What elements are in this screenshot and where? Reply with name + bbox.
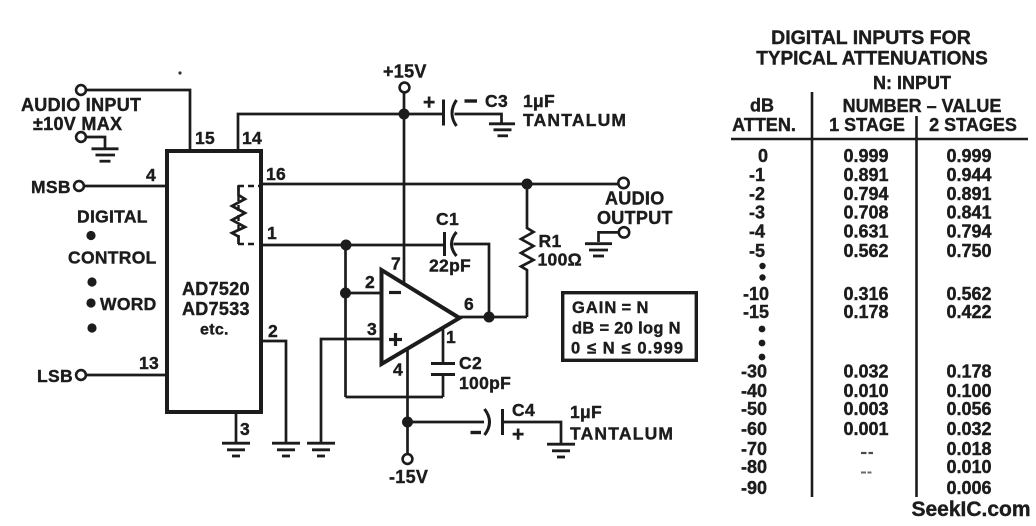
svg-text:TANTALUM: TANTALUM — [570, 424, 674, 444]
svg-text:7: 7 — [391, 254, 401, 274]
svg-text:-80: -80 — [741, 457, 767, 477]
svg-text:GAIN = N: GAIN = N — [572, 299, 649, 317]
terminal: MSB — [74, 181, 84, 191]
svg-text:TYPICAL ATTENUATIONS: TYPICAL ATTENUATIONS — [756, 49, 988, 70]
ground (C4) — [547, 444, 575, 457]
capacitor C3 — [444, 100, 457, 127]
svg-text:0.006: 0.006 — [946, 478, 991, 498]
wire: C1 to output node — [454, 244, 490, 312]
wire: pin 14 to +15V rail — [238, 114, 404, 150]
svg-text:C3: C3 — [485, 91, 508, 111]
wire: output return to ground — [599, 232, 619, 242]
svg-text:dB: dB — [750, 96, 774, 116]
svg-text:-30: -30 — [741, 362, 767, 382]
bullet 4 — [87, 323, 96, 332]
op-amp U1 — [382, 270, 460, 364]
svg-text:MSB: MSB — [31, 177, 71, 197]
scan speck — [178, 71, 181, 74]
svg-text:CONTROL: CONTROL — [68, 248, 157, 268]
ground (IC pin 2) — [272, 443, 300, 456]
svg-text:0.794: 0.794 — [946, 222, 991, 242]
wire: MSB to pin 4 — [85, 185, 165, 188]
wire: audio input to pin 15 — [87, 90, 190, 150]
bullet 3 — [86, 298, 95, 307]
svg-text:0.001: 0.001 — [843, 419, 888, 439]
wire: +15V node to C3 — [404, 113, 443, 116]
svg-text:AD7520: AD7520 — [182, 279, 250, 299]
svg-text:6: 6 — [464, 294, 474, 314]
svg-text:etc.: etc. — [200, 322, 229, 339]
svg-text:NUMBER – VALUE: NUMBER – VALUE — [843, 96, 1002, 116]
wire: pin 16 audio output line — [261, 183, 618, 186]
svg-text:TANTALUM: TANTALUM — [523, 110, 627, 130]
no-value dashes row -70 — [861, 452, 873, 454]
svg-text:0.003: 0.003 — [843, 399, 888, 419]
wire: IC pin 3 to ground — [235, 414, 238, 443]
wire: non-inverting input to ground — [321, 339, 380, 443]
junction: output node — [484, 312, 495, 323]
svg-text:0.999: 0.999 — [843, 146, 888, 166]
svg-text:AD7533: AD7533 — [182, 299, 250, 319]
svg-text:-4: -4 — [749, 222, 765, 242]
resistor: internal feedback of DAC — [232, 186, 245, 244]
svg-text:0.891: 0.891 — [946, 184, 991, 204]
wire: inverting net vertical — [344, 245, 347, 397]
svg-text:LSB: LSB — [37, 366, 73, 386]
svg-text:1: 1 — [446, 327, 456, 347]
svg-text:1μF: 1μF — [523, 91, 555, 111]
terminal: audio output — [618, 178, 628, 188]
label: − (C4 polarity) — [471, 431, 482, 434]
svg-text:0: 0 — [758, 146, 768, 166]
svg-text:-10: -10 — [743, 284, 769, 304]
svg-text:2: 2 — [365, 272, 375, 292]
svg-text:0.316: 0.316 — [843, 284, 888, 304]
svg-text:22pF: 22pF — [429, 256, 471, 276]
svg-text:-2: -2 — [749, 184, 765, 204]
svg-text:0.562: 0.562 — [946, 284, 991, 304]
capacitor C1 — [445, 232, 457, 256]
terminal: audio output return — [619, 227, 629, 237]
svg-text:DIGITAL: DIGITAL — [77, 207, 148, 227]
wire: LSB to pin 13 — [87, 374, 165, 377]
svg-text:+15V: +15V — [383, 62, 427, 82]
svg-text:+: + — [423, 91, 436, 114]
svg-text:ATTEN.: ATTEN. — [732, 115, 796, 135]
svg-text:-50: -50 — [741, 399, 767, 419]
svg-text:SeekIC.com: SeekIC.com — [911, 498, 1030, 521]
svg-text:3: 3 — [240, 419, 250, 439]
svg-text:-40: -40 — [741, 381, 767, 401]
svg-text:0.999: 0.999 — [946, 146, 991, 166]
svg-text:0.422: 0.422 — [946, 302, 991, 322]
ellipsis dots b — [759, 326, 766, 333]
svg-text:0 ≤ N ≤ 0.999: 0 ≤ N ≤ 0.999 — [571, 340, 684, 358]
svg-text:1 STAGE: 1 STAGE — [829, 115, 905, 135]
svg-text:+: + — [512, 423, 525, 446]
svg-text:0.032: 0.032 — [946, 419, 991, 439]
svg-text:-3: -3 — [749, 203, 765, 223]
wire: inverting input to op-amp — [346, 292, 382, 295]
svg-text:100Ω: 100Ω — [538, 250, 582, 270]
svg-text:0.178: 0.178 — [946, 362, 991, 382]
svg-text:0.100: 0.100 — [946, 381, 991, 401]
wire: op-amp pin 4 to -15V — [406, 350, 409, 454]
ground (C3) — [489, 124, 515, 136]
table rule: header underline — [731, 138, 1028, 141]
svg-text:0.944: 0.944 — [946, 165, 991, 185]
ellipsis dots a — [759, 263, 765, 269]
resistor R1 — [521, 184, 534, 317]
svg-text:0.010: 0.010 — [946, 457, 991, 477]
svg-text:dB = 20 log N: dB = 20 log N — [572, 320, 681, 338]
capacitor C4 — [485, 409, 503, 435]
svg-text:C2: C2 — [459, 353, 482, 373]
svg-text:2: 2 — [268, 321, 278, 341]
wire: C3 to ground — [455, 114, 502, 123]
svg-text:0.178: 0.178 — [843, 302, 888, 322]
IC U1 AD7520/AD7533 — [167, 151, 261, 412]
wire: -15V node to C4 — [408, 421, 485, 424]
no-value dashes row -80 — [861, 472, 872, 474]
wire: pin 1 feedback line to C1 — [261, 244, 444, 247]
table rule: column divider 2 — [915, 116, 918, 497]
svg-text:0.018: 0.018 — [946, 439, 991, 459]
table rule: column divider 1 — [811, 92, 814, 497]
svg-text:1: 1 — [267, 223, 277, 243]
terminal: -15V — [403, 454, 413, 464]
terminal: audio input — [76, 85, 86, 95]
svg-text:3: 3 — [367, 319, 377, 339]
svg-text:0.891: 0.891 — [843, 165, 888, 185]
svg-text:±10V MAX: ±10V MAX — [33, 114, 122, 134]
terminal: +15V — [400, 83, 410, 93]
svg-text:N: INPUT: N: INPUT — [873, 73, 951, 93]
svg-text:0.056: 0.056 — [946, 399, 991, 419]
wire: IC pin 2 to ground — [261, 341, 286, 443]
ground (op-amp pin 3) — [307, 443, 335, 456]
svg-text:1μF: 1μF — [570, 402, 602, 422]
svg-text:AUDIO INPUT: AUDIO INPUT — [21, 95, 141, 115]
dashed box: internal feedback resistor — [238, 185, 260, 245]
svg-text:0.032: 0.032 — [843, 362, 888, 382]
svg-text:AUDIO: AUDIO — [605, 189, 665, 209]
minus sign (inverting input) — [389, 291, 401, 294]
svg-text:-15V: -15V — [389, 467, 428, 487]
svg-text:WORD: WORD — [100, 294, 157, 314]
ground (audio output) — [585, 244, 612, 256]
svg-text:DIGITAL INPUTS FOR: DIGITAL INPUTS FOR — [771, 27, 971, 49]
bullet 1 — [86, 231, 95, 240]
svg-text:-15: -15 — [743, 302, 769, 322]
svg-text:0.708: 0.708 — [843, 203, 888, 223]
svg-text:C4: C4 — [512, 400, 535, 420]
svg-text:0.631: 0.631 — [843, 222, 888, 242]
ground (IC pin 3) — [222, 443, 250, 456]
junction: -15V node — [402, 417, 413, 428]
gain equation box — [563, 293, 697, 361]
svg-text:OUTPUT: OUTPUT — [597, 208, 673, 228]
wire: audio return to ground — [87, 137, 105, 148]
junction: R1 top on audio line — [522, 179, 533, 190]
svg-text:C1: C1 — [436, 209, 459, 229]
terminal: LSB — [76, 370, 86, 380]
svg-text:15: 15 — [195, 128, 215, 148]
wire: op-amp pin 1 stub to C2 — [442, 329, 445, 363]
terminal: audio input return — [76, 132, 86, 142]
svg-text:4: 4 — [393, 360, 403, 380]
svg-text:-60: -60 — [741, 419, 767, 439]
label: − (C3 polarity) — [465, 99, 478, 102]
svg-text:0.750: 0.750 — [946, 241, 991, 261]
svg-text:-90: -90 — [741, 478, 767, 498]
svg-text:-5: -5 — [749, 241, 765, 261]
wire: +15V down to op-amp pin 7 — [403, 93, 406, 284]
junction: inverting input node — [340, 288, 351, 299]
wire: op-amp output — [459, 316, 527, 319]
ground (audio input) — [92, 149, 119, 161]
wire: compensation bottom return — [346, 396, 444, 399]
svg-text:16: 16 — [266, 164, 286, 184]
bullet 2 — [87, 277, 96, 286]
junction: +15V node — [399, 109, 410, 120]
wire: C4 to ground — [503, 422, 561, 444]
svg-text:0.794: 0.794 — [843, 184, 888, 204]
svg-text:2 STAGES: 2 STAGES — [929, 115, 1017, 135]
svg-text:0.010: 0.010 — [843, 381, 888, 401]
svg-text:13: 13 — [139, 353, 159, 373]
svg-text:0.841: 0.841 — [946, 203, 991, 223]
svg-text:-1: -1 — [749, 165, 765, 185]
svg-text:-70: -70 — [741, 439, 767, 459]
junction: pin 1 / inverting branch — [341, 240, 352, 251]
svg-text:R1: R1 — [539, 231, 562, 251]
svg-text:0.562: 0.562 — [843, 241, 888, 261]
svg-text:14: 14 — [242, 128, 262, 148]
capacitor C2 — [431, 364, 455, 375]
svg-text:100pF: 100pF — [459, 373, 511, 393]
svg-text:4: 4 — [146, 165, 156, 185]
plus sign (non-inverting input) — [389, 333, 402, 346]
wire: C2 bottom — [442, 375, 445, 397]
